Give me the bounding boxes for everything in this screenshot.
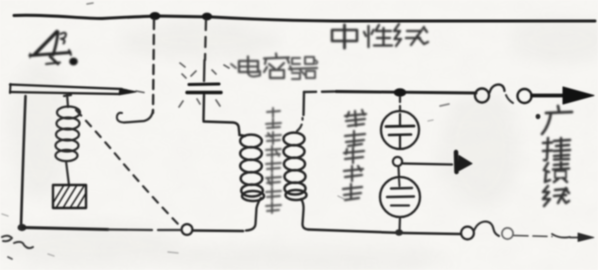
wire: secondary bottom conductor (308, 230, 460, 235)
wire: primary bottom conductor (23, 228, 108, 230)
stray speck (8, 257, 12, 259)
label 广播馈线 char 线 (543, 186, 569, 206)
capacitor lower lead (202, 95, 205, 120)
secondary coil bottom lead (301, 199, 308, 230)
scan smudge marks (2, 29, 433, 256)
label 中性线 (neutral line) char 中 (332, 25, 357, 48)
knife switch bar left end cap (9, 84, 12, 93)
dot before vertical label (536, 114, 541, 119)
label 电容器 char 器 (289, 57, 317, 79)
capacitor C plates (189, 83, 219, 87)
lamp L2 circle (380, 177, 420, 217)
lamp L2 bottom junction (395, 229, 403, 235)
label 电容器 char 容 (264, 54, 292, 79)
fuse F1 left post (475, 89, 489, 103)
fuse F1 right post (518, 89, 532, 103)
faint tip extension (136, 91, 144, 93)
knife switch blade tip (119, 89, 136, 95)
pull ring on bottom wire (182, 224, 193, 235)
transformer primary coil P1 (240, 135, 265, 201)
bottom feeder wire with arrow (514, 236, 552, 237)
lamp L1 circle (381, 111, 419, 149)
label 广播馈线 char 播 (543, 138, 570, 160)
label 广播馈线 char 馈 (544, 162, 569, 182)
knife switch blade bar (lower edge) (10, 92, 118, 94)
faint tick below wire (440, 104, 449, 106)
junction blob bottom-left (18, 224, 27, 231)
fuse F2 wire squiggle (474, 222, 499, 237)
dashed pull rope (long) (76, 110, 178, 224)
capacitor wire: dashed upper lead from node B (205, 20, 206, 60)
lamp L2 stub (397, 167, 400, 178)
primary coil bottom lead (246, 198, 261, 231)
lamp label column (blurry chars) (343, 110, 366, 200)
fuse F1 wire squiggle (490, 85, 505, 93)
label 广播馈线 char 广 (542, 106, 572, 134)
wire: left vertical conductor (21, 96, 26, 227)
transformer secondary coil S1 (284, 133, 307, 200)
wire: dashed drop from node A (153, 20, 154, 113)
node B junction dot on top rail (202, 13, 212, 21)
spring coil (56, 107, 81, 162)
secondary top lead with flick (297, 118, 303, 131)
lamp L2 internal bars (387, 179, 414, 206)
knife switch blade bar (upper edge) (10, 85, 122, 90)
top edge speck (87, 3, 93, 4)
transformer core label column (blurry chars) (266, 108, 281, 213)
stray hook bottom-left (14, 242, 33, 248)
wire: hook at bottom of left drop (124, 110, 153, 123)
spring hanger stub (64, 94, 71, 108)
lamp L2 bottom stub (398, 218, 401, 232)
fuse F2 right post (faint) (502, 228, 513, 239)
fuse F2 left post (461, 227, 474, 240)
wire: top neutral-line rail (14, 15, 595, 21)
capacitor tick marks (179, 63, 229, 107)
wire: secondary top conductor (304, 90, 336, 93)
stray squiggle bottom-left (2, 236, 12, 241)
label 电容器 char 电 (231, 57, 260, 77)
figure label 4. (30, 32, 78, 66)
label 中性线 char 性 (364, 25, 392, 47)
tap arrow to load (403, 152, 472, 172)
lamp L1 dashed stub (399, 97, 401, 112)
node D small ring between lamps (393, 157, 402, 166)
wire: capacitor to primary coil (204, 122, 240, 136)
faint dash bottom middle (168, 252, 178, 253)
lamp L1 internal plates (386, 114, 414, 148)
weight box with hatching (53, 185, 86, 208)
top feeder arrow (532, 94, 570, 98)
link spring to weight (66, 161, 69, 185)
node A junction dot on top rail (150, 12, 161, 20)
node C junction dot (394, 88, 406, 96)
label 中性线 char 线 (394, 24, 428, 46)
